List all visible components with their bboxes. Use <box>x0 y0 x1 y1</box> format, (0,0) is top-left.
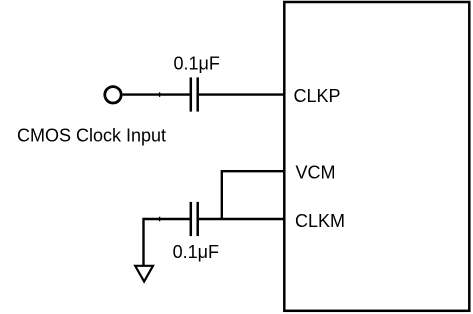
svg-text:0.1μF: 0.1μF <box>174 53 220 73</box>
svg-text:CLKP: CLKP <box>294 86 341 106</box>
svg-text:VCM: VCM <box>296 163 336 183</box>
svg-text:0.1μF: 0.1μF <box>173 242 219 262</box>
svg-text:CLKM: CLKM <box>295 211 345 231</box>
svg-text:CMOS Clock Input: CMOS Clock Input <box>17 125 166 145</box>
